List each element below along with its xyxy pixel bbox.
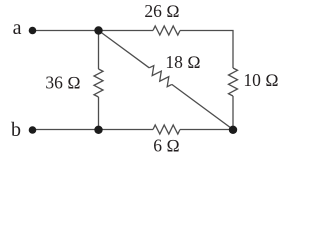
- resistor R 36 ohm zigzag: [94, 69, 103, 97]
- wire resistor 26 to top-right corner and down: [180, 31, 233, 69]
- node bottom-left junction dot: [94, 126, 102, 134]
- resistor R 10 ohm zigzag: [229, 68, 238, 96]
- svg-text:a: a: [13, 17, 22, 39]
- resistor R 26 ohm zigzag: [153, 26, 180, 35]
- wire resistor 6 to bottom-right node: [180, 129, 233, 131]
- terminal b dot: [29, 126, 37, 134]
- resistor R 6 ohm zigzag: [153, 125, 180, 134]
- wire b to bottom-left node to resistor 6: [34, 129, 153, 131]
- wire resistor 36 to bottom-left node: [98, 97, 100, 130]
- terminal a dot: [29, 27, 37, 35]
- node bottom-right junction dot: [229, 126, 237, 134]
- wire resistor 10 to bottom-right node: [232, 96, 234, 130]
- svg-text:18 Ω: 18 Ω: [165, 52, 200, 72]
- wire resistor 18 to bottom-right node: [172, 84, 233, 129]
- svg-text:b: b: [11, 119, 21, 141]
- svg-text:10 Ω: 10 Ω: [243, 70, 278, 90]
- wire diagonal top-left node to resistor 18: [99, 31, 150, 68]
- wire a to top-left node: [34, 30, 99, 32]
- node top-left junction dot: [94, 26, 102, 34]
- svg-text:26 Ω: 26 Ω: [144, 1, 179, 21]
- resistor R 18 ohm zigzag: [149, 66, 172, 87]
- svg-text:6 Ω: 6 Ω: [153, 136, 180, 156]
- wire top-left node down to resistor 36: [98, 31, 100, 70]
- wire top-left node to resistor 26: [99, 30, 154, 32]
- svg-text:36 Ω: 36 Ω: [45, 73, 80, 93]
